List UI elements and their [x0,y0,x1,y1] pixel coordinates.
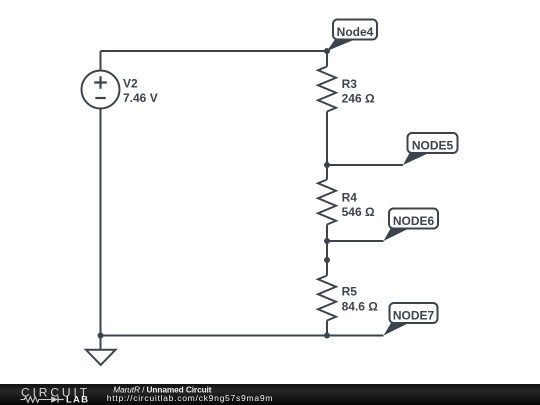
wire NODE6 junction to node dot [326,241,328,260]
node NODE6 flag [384,209,439,242]
node Node4 flag [327,20,377,52]
ground [86,336,116,365]
wire node dot to R5 [326,260,328,276]
junction NODE7 [324,333,330,339]
resistor R3 [318,67,336,112]
node NODE7 flag [384,303,438,336]
svg-text:546 Ω: 546 Ω [342,205,375,219]
junction NODE5 [324,162,330,168]
svg-text:V2: V2 [123,77,138,91]
wire V2 bottom lead down to ground rail [100,109,102,336]
svg-text:NODE6: NODE6 [393,214,435,228]
junction wire joint [324,257,330,263]
footer logo CIRCUIT [21,385,90,399]
svg-text:LAB: LAB [66,395,89,405]
wire NODE5 junction to R4 [326,165,328,180]
svg-text:NODE7: NODE7 [393,308,435,322]
footer url line [107,393,273,403]
wire R5 bottom to rail [326,321,328,336]
wire NODE6 stub [327,240,384,242]
svg-text:246 Ω: 246 Ω [342,92,375,106]
svg-text:http://circuitlab.com/ck9ng57s: http://circuitlab.com/ck9ng57s9ma9m [107,393,273,403]
svg-text:R5: R5 [342,285,358,299]
footer bar [0,384,540,405]
wire NODE5 stub [327,164,403,166]
footer logo LAB [66,395,89,405]
wire R3 bottom to NODE5 junction [326,112,328,166]
voltage source V2 [82,71,120,109]
svg-text:Node4: Node4 [337,25,374,39]
footer title line [113,384,211,394]
svg-text:84.6 Ω: 84.6 Ω [342,300,379,314]
svg-text:7.46 V: 7.46 V [123,91,158,105]
label R4 name and value [342,191,375,220]
resistor R4 [318,180,336,225]
resistor R5 [318,276,336,321]
label R3 name and value [342,77,375,106]
wire R4 bottom to NODE6 junction [326,225,328,242]
wire bottom horizontal rail [101,335,384,337]
wire top horizontal from V2 to Node4 [101,50,328,52]
wire from Node4 junction down to R3 [326,51,328,67]
footer logo circuit doodle [21,396,64,402]
label V2 name and value [123,77,158,106]
label R5 name and value [342,285,379,314]
wire V2 top lead [100,51,102,70]
node NODE5 flag [403,133,458,165]
svg-text:R4: R4 [342,191,358,205]
svg-text:R3: R3 [342,77,358,91]
junction NODE6 [324,238,330,244]
junction ground [98,333,104,339]
junction Node4 [324,48,330,54]
svg-text:NODE5: NODE5 [412,138,454,152]
